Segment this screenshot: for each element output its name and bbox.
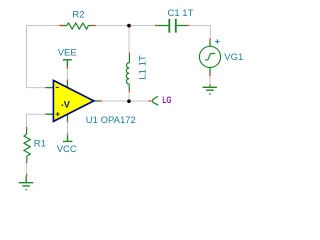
wire L1 bottom to output node bbox=[128, 93, 130, 102]
wire feedback top-left: from node at inverting input up and across to R2 bbox=[27, 26, 60, 88]
svg-text:C1 1T: C1 1T bbox=[168, 8, 194, 19]
op-amp U1: output pin bbox=[94, 100, 100, 102]
svg-text:U1 OPA172: U1 OPA172 bbox=[86, 115, 136, 126]
svg-text:R1: R1 bbox=[34, 139, 46, 150]
resistor R1 bbox=[24, 127, 30, 163]
op-amp U1: supply pins bbox=[66, 79, 68, 122]
voltage generator VG1 bbox=[199, 38, 220, 76]
op-amp plus input mark bbox=[56, 112, 60, 116]
VCC supply bar symbol bbox=[63, 134, 72, 142]
op-amp U1: input pins bbox=[45, 88, 47, 115]
svg-text:R2: R2 bbox=[72, 9, 84, 20]
svg-text:VEE: VEE bbox=[58, 47, 77, 58]
VEE supply bar symbol bbox=[63, 60, 72, 69]
op-amp minus input mark bbox=[56, 86, 59, 88]
node B junction output bbox=[127, 99, 131, 103]
wire noninverting input to R1 bbox=[27, 114, 46, 127]
svg-text:VG1: VG1 bbox=[224, 52, 243, 63]
op-amp +V mark bbox=[62, 104, 64, 106]
wire R1 bottom to ground bbox=[26, 163, 28, 174]
resistor R2 bbox=[59, 23, 96, 29]
ground (left, below R1) bbox=[19, 174, 34, 190]
op-amp U1 triangle body bbox=[53, 80, 93, 121]
inductor L1 bbox=[126, 52, 129, 92]
svg-text:L1 1T: L1 1T bbox=[137, 55, 148, 79]
wire op-amp bottom supply pin to VCC bbox=[67, 122, 69, 134]
capacitor C1 bbox=[155, 19, 189, 33]
wire VG1 bottom to ground bbox=[209, 76, 211, 84]
wire node to L1 top bbox=[128, 26, 130, 53]
wire VEE to op-amp top supply pin bbox=[66, 69, 68, 80]
node A junction top bbox=[127, 24, 131, 28]
output pin LG fork bbox=[149, 100, 152, 102]
ground (below VG1) bbox=[203, 84, 217, 94]
wire op-amp output to LG pin bbox=[102, 100, 149, 102]
svg-text:VCC: VCC bbox=[57, 144, 77, 155]
wire C1 right to VG1 top corner bbox=[189, 26, 210, 39]
wire R2 right to C1 left (through node) bbox=[96, 25, 155, 27]
svg-text:V: V bbox=[64, 100, 71, 111]
svg-text:LG: LG bbox=[162, 95, 171, 106]
